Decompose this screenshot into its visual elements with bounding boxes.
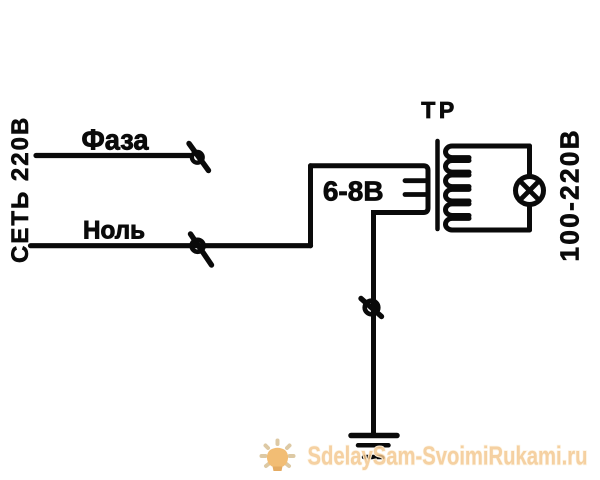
svg-text:100-220В: 100-220В xyxy=(555,128,585,261)
svg-text:6-8В: 6-8В xyxy=(323,176,384,207)
svg-text:ТР: ТР xyxy=(421,97,457,123)
svg-text:СЕТЬ 220В: СЕТЬ 220В xyxy=(7,116,34,263)
ground xyxy=(351,436,397,458)
lamp HL1 xyxy=(516,177,544,205)
wire neutral N xyxy=(31,243,311,248)
transformer T1 primary winding xyxy=(311,166,429,433)
connector X3 xyxy=(361,299,382,317)
connector X2 xyxy=(191,234,212,265)
svg-text:Фаза: Фаза xyxy=(82,125,150,157)
wire secondary top lead xyxy=(527,146,532,175)
connector X1 xyxy=(189,144,209,171)
transformer T1 core xyxy=(435,141,440,229)
wire phase L xyxy=(36,153,190,158)
svg-text:SdelaySam-SvoimiRukami.ru: SdelaySam-SvoimiRukami.ru xyxy=(308,441,588,471)
svg-text:Ноль: Ноль xyxy=(83,217,145,245)
transformer T1 secondary winding xyxy=(446,146,530,230)
wire riser to primary top xyxy=(308,166,313,246)
transformer T1 primary middle turns xyxy=(405,181,426,195)
wire secondary bottom lead xyxy=(527,207,532,231)
watermark bulb icon xyxy=(262,441,294,472)
